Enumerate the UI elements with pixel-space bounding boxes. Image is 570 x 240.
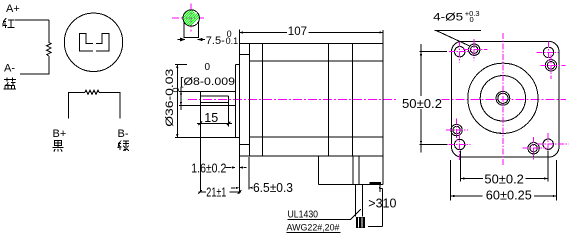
svg-text:0.1: 0.1 (226, 36, 239, 46)
svg-text:0: 0 (171, 87, 181, 92)
crosshair screw BR2 (523, 137, 547, 160)
dim line Ø8 (vertical with arrows) (180, 87, 182, 110)
svg-text:21±1: 21±1 (206, 186, 226, 200)
dim text 6.5±0.3 (253, 181, 293, 195)
svg-text:15: 15 (204, 111, 218, 125)
screw hole BR2 (528, 143, 539, 154)
dim 6.5 arrows (231, 187, 252, 189)
wire down to coil (48, 20, 50, 43)
dim 7.5 arrows (178, 38, 205, 40)
flange corner notch lines (239, 55, 249, 145)
lead wires inside box (353, 156, 359, 185)
body top edge (239, 43, 383, 45)
Ø36 dim line with arrows (176, 65, 178, 138)
dim 50±0.2 left: line + arrows (420, 44, 422, 152)
bearing hub circle (480, 76, 525, 121)
flat end line + dim 15 extension (228, 96, 230, 127)
dim text >310 (368, 196, 396, 210)
dim line 107 with arrows (239, 31, 383, 33)
center crosshair vertical (502, 33, 504, 166)
flange rear joint (248, 44, 250, 156)
terminal box bottom (318, 184, 383, 186)
stator lamination U shape (79, 33, 109, 51)
hatch (green section lines) (180, 2, 200, 28)
motor stator icon circle (64, 13, 122, 71)
shaft top edge + dim extension (179, 90, 236, 92)
leader to hole TL (436, 30, 471, 46)
label 绿 (green) (118, 140, 130, 151)
screw hole BL2 (451, 124, 462, 135)
mounting hole TR (543, 47, 553, 57)
front endbell joint (261, 44, 263, 156)
svg-text:>310: >310 (368, 196, 396, 210)
mounting hole BL (455, 139, 465, 149)
dim 50±0.2 left: text (399, 96, 443, 111)
svg-text:A-: A- (4, 63, 15, 75)
label underline (435, 29, 482, 31)
phase B loop left wire (68, 92, 85, 118)
crosshair hole BL (449, 133, 471, 161)
crosshair screw TL2 (463, 39, 488, 61)
coil (phase A winding) (47, 43, 51, 57)
dim 50±0.2 bottom: text (483, 173, 526, 187)
dim >310 bracket (368, 185, 383, 227)
body rear edge + 107 extension (382, 30, 384, 156)
svg-text:UL1430: UL1430 (288, 209, 319, 220)
dim text Ø36 0/-0.03 (rotated) (164, 69, 181, 127)
svg-text:7.5-: 7.5- (206, 35, 225, 47)
crosshair hole TR (537, 42, 559, 64)
shaft chamfer circle (498, 93, 508, 103)
svg-text:50±0.2: 50±0.2 (484, 173, 524, 187)
node B- label (118, 128, 129, 140)
dim text 15 (204, 111, 218, 125)
svg-text:1.6±0.2: 1.6±0.2 (191, 162, 226, 176)
wire A+ (15, 19, 49, 21)
pilot boss circle Ø36 (468, 63, 538, 133)
cable exit thick bar (370, 182, 382, 185)
svg-text:B+: B+ (53, 128, 67, 140)
mounting hole BR (543, 139, 553, 149)
lead wires below box (356, 185, 363, 217)
svg-text:60±0.25: 60±0.25 (486, 188, 532, 202)
mounting hole TL (455, 47, 465, 57)
dim line 15 with oblique ticks (197, 122, 232, 126)
centerline vertical (magenta) (190, 4, 192, 32)
crosshair hole TL (449, 41, 471, 63)
dim 50±0.2 bottom: line + arrows (461, 177, 548, 179)
shaft flat profile rectangle (184, 22, 199, 37)
dim 60±0.25: extensions (451, 160, 557, 201)
pilot boss front face (235, 65, 237, 138)
dim 60±0.25: line + arrows (451, 195, 557, 197)
dim text Ø8 0/-0.009 (180, 62, 235, 88)
dim 50±0.2 left: extensions (420, 52, 448, 145)
shaft flat lines (200, 96, 228, 103)
shaft circle Ø8 (496, 91, 510, 105)
svg-text:0: 0 (470, 15, 474, 24)
node A+ label (6, 3, 20, 15)
dim text 21±1 (206, 186, 226, 200)
boss top and bottom edges (236, 65, 240, 138)
svg-text:50±0.2: 50±0.2 (402, 97, 442, 111)
svg-text:4-Ø5: 4-Ø5 (433, 11, 463, 23)
wire from coil to A- (20, 56, 49, 74)
svg-text:Ø36-0.03: Ø36-0.03 (164, 69, 176, 127)
terminal box right (382, 156, 384, 185)
mounting plate outline (452, 41, 560, 157)
body chamfer line bottom (249, 136, 383, 138)
dim 1.6±0.2 arrows (226, 166, 247, 168)
dim text 7.5 0/-0.1 (206, 29, 238, 47)
leader underline + slash (288, 209, 361, 220)
svg-text:B-: B- (118, 128, 129, 140)
Ø36 extension bottom (175, 137, 236, 139)
shaft end face (199, 91, 201, 192)
dim text 1.6±0.2 (191, 162, 226, 176)
node A- label (4, 63, 15, 75)
label 4-Ø5 +0.3/0 (433, 9, 479, 24)
rear endbell joint (328, 44, 330, 156)
svg-text:[Ø8-0.009: [Ø8-0.009 (180, 76, 235, 88)
dim text 107 (287, 26, 309, 38)
node B+ label (53, 128, 67, 140)
crosshair hole BR (537, 133, 569, 162)
screw hole TL2 (469, 44, 480, 55)
shaft section circle (183, 10, 199, 26)
wire label AWG22#,20# (287, 223, 341, 234)
dim 60±0.25: text (483, 188, 535, 202)
screw hole TR2 (545, 60, 556, 71)
crosshair screw BL2 (446, 119, 468, 142)
body bottom edge (239, 155, 383, 157)
terminal box left (317, 156, 319, 185)
coil (phase B winding) (85, 90, 99, 94)
dim line 21±1 with oblique ticks (198, 190, 241, 194)
body chamfer line top (249, 60, 383, 62)
wire label UL1430 (288, 209, 319, 220)
svg-text:0: 0 (205, 62, 211, 73)
svg-text:107: 107 (288, 26, 307, 38)
Ø36 extension top (175, 64, 187, 66)
label 蓝 (blue) (4, 77, 17, 89)
shaft bottom edge + dim extension (179, 105, 236, 107)
crosshair screw TR2 (541, 55, 566, 79)
dim 6.5 extension (248, 157, 250, 190)
svg-text:A+: A+ (6, 3, 20, 15)
svg-text:6.5±0.3: 6.5±0.3 (253, 181, 293, 195)
phase B loop right wire (99, 92, 120, 118)
rear endbell step (352, 44, 354, 156)
centerline horizontal (magenta) (172, 17, 204, 19)
centerline (magenta) (188, 99, 566, 101)
label 黑 (black) (53, 141, 64, 152)
dim 50±0.2 bottom: extensions (461, 151, 548, 182)
flange front face / extension line (238, 30, 240, 194)
label 红 (red) (2, 18, 14, 28)
connector (356, 217, 365, 228)
